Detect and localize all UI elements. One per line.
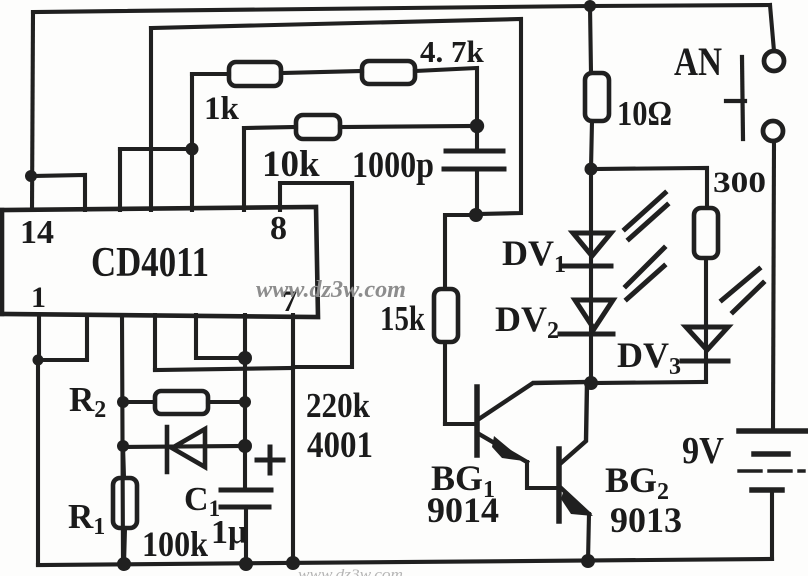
LED DV3 body [686, 327, 728, 350]
svg-text:9014: 9014 [427, 490, 499, 530]
transistor BG1 emitter arrow [492, 436, 524, 461]
wire pin vertical x192 [190, 149, 194, 210]
wire BG2 emitter down [588, 514, 589, 561]
wire pin vertical x245 down [243, 315, 247, 490]
wire pin14 jog [31, 175, 85, 210]
svg-text:CD4011: CD4011 [91, 240, 209, 286]
light arrow DV2 b [627, 266, 664, 299]
wire pin1 jog below [39, 315, 87, 360]
wire pin vertical x244 [242, 128, 246, 210]
svg-text:9V: 9V [682, 430, 724, 472]
switch AN contact top [764, 51, 784, 71]
battery B1 plate long top [739, 428, 808, 434]
wire bottom border [38, 559, 772, 565]
node junction (476,124) [470, 119, 484, 133]
wire DV1 DV2 chain lead [589, 169, 593, 383]
wire right border top [770, 5, 774, 51]
svg-text:8: 8 [270, 210, 287, 247]
capacitor C 1000p plate1 [446, 149, 503, 154]
node junction bottom (588,561) [581, 554, 595, 568]
polarity plus sign [257, 458, 283, 463]
LED DV2 body [575, 300, 613, 329]
wire 15k top jog [445, 215, 476, 289]
wire C1 bottom lead [244, 507, 248, 564]
wire top right drop [590, 6, 591, 73]
node junction R2 right (245,402) [239, 396, 251, 408]
node junction (192,149) [186, 143, 199, 156]
LED DV3 cathode bar [682, 359, 728, 364]
node junction bottom (124,564) [117, 557, 131, 571]
wire horizontal y370 [155, 368, 293, 370]
light arrow DV1 a [625, 193, 665, 229]
node junction diode left (123,446) [117, 440, 129, 452]
node junction (245,358) [238, 351, 252, 365]
transistor BG1 collector [479, 382, 588, 419]
LED DV1 body [573, 233, 611, 256]
wire top border [33, 5, 770, 12]
svg-text:1: 1 [31, 281, 46, 314]
node junction R2 left (123,402) [117, 396, 129, 408]
battery B1 plate short 2 [754, 451, 788, 457]
resistor R 1k body [229, 62, 281, 86]
resistor R 4.7k body [362, 61, 415, 84]
svg-text:4001: 4001 [307, 425, 373, 466]
node junction (591,169) [585, 163, 598, 176]
svg-text:www.dz3w.com: www.dz3w.com [298, 567, 403, 576]
wire 300 bottom lead [704, 258, 708, 326]
svg-text:1000p: 1000p [352, 145, 434, 186]
switch AN actuator [742, 57, 743, 139]
wire pin stub x39 [37, 315, 41, 360]
capacitor C1 plate2 [221, 505, 269, 510]
wire cap bottom lead [475, 169, 479, 215]
wire pin vertical x293 down [291, 315, 295, 564]
svg-text:DV1: DV1 [502, 233, 566, 278]
svg-text:220k: 220k [306, 386, 370, 425]
svg-text:R2: R2 [69, 380, 106, 423]
node junction diode right (245,446) [238, 439, 252, 453]
diode D1 body [172, 429, 205, 467]
node junction at left (31,176) [25, 170, 37, 182]
wire BG1 base lead [445, 422, 477, 426]
svg-text:R1: R1 [68, 497, 105, 540]
wire R2 right lead [208, 400, 245, 404]
wire to 300 resistor [591, 168, 707, 208]
wire diode lead [123, 446, 245, 447]
light arrow DV3 b [733, 283, 763, 312]
diode D1 cathode bar [165, 427, 170, 472]
svg-text:300: 300 [713, 166, 766, 199]
svg-text:DV3: DV3 [617, 335, 681, 380]
wire pin vertical x120 [118, 149, 122, 210]
wire right border mid [773, 141, 774, 428]
wire R1 top lead [123, 446, 124, 478]
node junction (591,383) [584, 376, 598, 390]
capacitor C1 plate1 [221, 488, 271, 493]
switch AN contact bottom [763, 121, 783, 141]
wire left vertical top [32, 12, 33, 210]
wire pin8 loop [280, 183, 352, 367]
resistor R 10ohm body [585, 73, 609, 121]
transistor BG2 emitter [561, 488, 589, 514]
node junction (38,360) [33, 355, 44, 366]
LED DV1 cathode bar [564, 264, 611, 269]
svg-text:10k: 10k [262, 144, 320, 185]
battery B1 plate short 4 [752, 487, 782, 493]
IC U1 CD4011 box [2, 207, 318, 317]
transistor BG1 base bar [474, 387, 480, 455]
node junction bottom (246,564) [239, 557, 253, 571]
svg-text:1μ: 1μ [211, 514, 247, 551]
resistor R2 body [155, 391, 208, 414]
node junction (476,215) [469, 208, 483, 222]
wire pin jog x196 [196, 315, 245, 358]
svg-text:9013: 9013 [610, 500, 682, 540]
wire DV3 bottom lead [704, 326, 708, 381]
svg-text:4. 7k: 4. 7k [420, 34, 485, 69]
wire pin vertical x155 [153, 315, 157, 370]
wire 1k left lead down [190, 74, 194, 149]
wire 4.7k right lead [415, 68, 477, 126]
wire 10k line left [244, 127, 296, 128]
wire BG1 emitter to BG2 base [527, 462, 559, 488]
wire second horizontal to cap loop [151, 19, 521, 214]
wire R1 bottom lead [124, 528, 125, 564]
wire pin vertical x122 down [122, 315, 123, 564]
svg-text:10Ω: 10Ω [617, 94, 672, 133]
wire cap top lead [475, 126, 479, 151]
light arrow DV2 a [626, 248, 664, 286]
node junction bottom (293,563) [286, 556, 300, 570]
svg-text:DV2: DV2 [495, 299, 559, 344]
svg-text:15k: 15k [380, 299, 425, 338]
LED DV2 cathode bar [560, 332, 613, 337]
wire battery bottom lead [770, 490, 774, 559]
svg-text:BG2: BG2 [605, 460, 669, 505]
wire horizontal y149 [120, 147, 192, 151]
transistor BG2 collector [561, 383, 587, 463]
light arrow DV3 a [722, 269, 759, 300]
capacitor C 1000p plate2 [444, 167, 504, 172]
node junction (590,6) [584, 0, 596, 12]
svg-text:1k: 1k [204, 91, 240, 127]
wire 15k bottom to BG1 base [445, 342, 477, 424]
resistor R 10k body [296, 115, 340, 139]
resistor R 300 body [694, 208, 718, 258]
svg-text:www.dz3w.com: www.dz3w.com [256, 277, 406, 303]
resistor R 15k body [434, 289, 458, 342]
svg-text:14: 14 [20, 214, 54, 251]
svg-text:100k: 100k [142, 524, 208, 564]
svg-text:AN: AN [674, 39, 722, 84]
resistor R1 body [113, 478, 137, 528]
wire DV3 bottom horizontal [591, 382, 706, 383]
transistor BG1 emitter [479, 434, 527, 462]
wire 10k right lead [340, 126, 477, 127]
wire 1k lead [192, 72, 229, 76]
wire 10ohm bottom lead [591, 121, 592, 169]
wire between 1k and 4.7k [281, 71, 362, 73]
battery B1 plate long 3 dashed [739, 469, 804, 472]
wire left lower vertical [36, 360, 40, 565]
light arrow DV1 b [629, 205, 667, 239]
transistor BG2 base bar [556, 449, 562, 521]
wire R2 left lead [123, 400, 154, 404]
wire pin vertical x151 [149, 28, 153, 210]
transistor BG2 emitter arrow [561, 489, 593, 516]
